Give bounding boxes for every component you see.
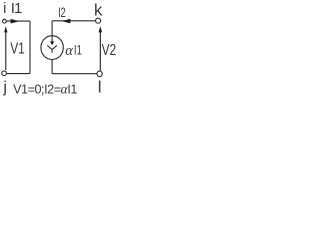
source internal chevron xyxy=(47,45,57,49)
wire top-left from i to short xyxy=(7,20,30,22)
svg-text:k: k xyxy=(94,2,103,20)
voltage arrow V2 xyxy=(99,26,103,70)
svg-text:V1: V1 xyxy=(10,41,25,58)
source internal arrow shaft xyxy=(51,36,53,42)
source internal arrow head xyxy=(50,41,54,45)
node l xyxy=(97,71,102,76)
voltage arrow V1 xyxy=(4,26,7,70)
svg-text:I2: I2 xyxy=(58,5,66,20)
wire short-circuit branch (V1=0) xyxy=(29,21,31,74)
svg-text:l: l xyxy=(98,78,102,97)
node k xyxy=(96,18,101,23)
current arrow I2 xyxy=(62,19,70,24)
wire bottom lead of source xyxy=(51,59,53,73)
svg-text:V1=0;I2=αI1: V1=0;I2=αI1 xyxy=(13,81,77,96)
svg-text:αI1: αI1 xyxy=(65,41,82,59)
node j xyxy=(2,71,7,76)
svg-text:I1: I1 xyxy=(11,0,22,17)
svg-text:j: j xyxy=(2,79,7,96)
wire top lead of source xyxy=(51,21,53,36)
source internal chevron stem xyxy=(51,50,53,53)
wire top-right from k to source xyxy=(52,20,95,22)
current arrow I1 xyxy=(11,19,20,24)
wire bottom-left from short to j xyxy=(7,73,30,75)
controlled current source (circle) xyxy=(41,36,63,60)
wire bottom-right from source to l xyxy=(52,73,97,75)
svg-text:V2: V2 xyxy=(102,42,117,59)
node i xyxy=(3,19,7,23)
svg-text:i: i xyxy=(3,1,6,17)
